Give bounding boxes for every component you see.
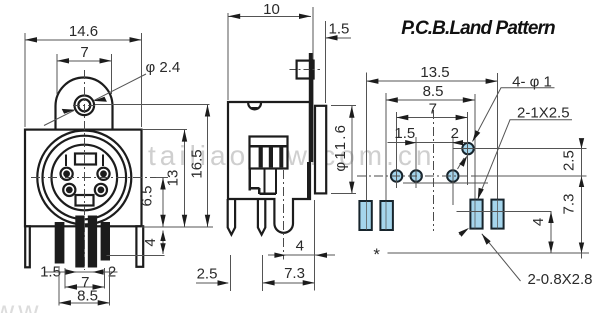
svg-text:1.5: 1.5: [40, 263, 61, 280]
dim 16.5 line: [207, 105, 209, 227]
svg-text:P.C.B.Land Pattern: P.C.B.Land Pattern: [401, 18, 555, 39]
pad R2: [491, 200, 503, 229]
dim 4 bottom reference line: [107, 254, 165, 256]
dim 4 vertical line: [550, 212, 552, 254]
dim 7.3 line: [263, 282, 315, 284]
left mounting leg: [25, 226, 30, 267]
hole B: [411, 170, 422, 181]
dim phi11.6 line: [351, 106, 353, 194]
ear hole outer: [75, 96, 95, 116]
solder pin 3 bar: [88, 216, 97, 268]
lower block step wall: [258, 188, 260, 194]
solder pin 4 bar: [101, 222, 110, 261]
dim phi2.4 leader lower: [44, 110, 74, 125]
svg-text:14.6: 14.6: [69, 23, 98, 40]
pad row reference line: [457, 211, 552, 213]
bottom shared reference line: [142, 226, 214, 228]
svg-text:*: *: [373, 245, 380, 264]
bottom key rect: [76, 195, 94, 206]
vertical ref through hole C: [452, 137, 454, 205]
ear hole inner: [78, 99, 90, 111]
pin 1 ring: [95, 184, 107, 196]
label 4-phi1 leader: [473, 88, 555, 142]
contact block divider 2: [269, 146, 273, 167]
pattern vertical centerline dashed: [432, 110, 434, 231]
dim 10 extension left: [227, 13, 229, 100]
pad R1 corner arrow: [459, 230, 466, 235]
dim phi2.4 leader upper: [95, 74, 147, 100]
svg-text:16.5: 16.5: [189, 149, 206, 178]
svg-text:φ11.6: φ11.6: [332, 123, 349, 172]
tab centerline dash: [290, 69, 321, 71]
svg-text:2.5: 2.5: [561, 150, 578, 171]
ref line through pad R1: [474, 200, 476, 229]
hole A: [391, 170, 402, 181]
svg-text:φ 2.4: φ 2.4: [146, 59, 181, 76]
key shoulder right: [102, 155, 104, 167]
svg-text:2-1X2.5: 2-1X2.5: [517, 104, 570, 121]
lower block step line: [249, 187, 259, 189]
dim 7 top extension lines: [56, 54, 58, 94]
vertical ref through hole D (7 right): [467, 112, 469, 185]
side body outline with shield tab U: [228, 102, 310, 233]
right mounting leg: [136, 226, 143, 266]
vertical ref through pad L2 (8.5 left): [385, 93, 387, 201]
insert circle: [52, 145, 118, 211]
svg-text:13.5: 13.5: [420, 64, 449, 81]
hole row reference solid: [473, 175, 587, 177]
dim 13 top reference line: [142, 129, 188, 131]
svg-text:8.5: 8.5: [423, 83, 444, 100]
front flange: [315, 106, 326, 194]
dim 10 extension right: [312, 7, 314, 59]
hole D lower-left arrow: [458, 158, 465, 169]
svg-text:ww: ww: [0, 295, 42, 313]
dim 1.5/2 line: [388, 142, 468, 144]
svg-text:6.5: 6.5: [138, 186, 155, 207]
pin 3 ring: [97, 168, 109, 180]
front body outline: [25, 130, 142, 227]
bottom reference line: [388, 252, 590, 254]
ref line through pad L1: [365, 201, 367, 230]
hole C: [447, 170, 458, 181]
ground bar: [309, 53, 314, 162]
svg-text:4: 4: [530, 218, 547, 226]
dim 7 line: [396, 117, 467, 119]
svg-text:10: 10: [263, 1, 280, 18]
lower block mid wall: [263, 169, 265, 194]
dim 16.5 top reference line: [95, 104, 210, 106]
svg-text:7: 7: [429, 101, 437, 118]
solder pin 2 bar: [75, 216, 84, 268]
svg-text:8.5: 8.5: [77, 288, 98, 305]
contact block box: [250, 137, 288, 169]
label 2-1X2.5 leader: [478, 120, 572, 200]
dim 1.5/2 bottom line: [44, 271, 118, 273]
lower block right wall: [275, 169, 277, 194]
hole D: [462, 143, 473, 154]
vertical ref through hole B: [415, 137, 417, 188]
ear hole center dash: [73, 104, 96, 106]
svg-text:7.3: 7.3: [284, 265, 305, 282]
lower block bottom line: [259, 193, 276, 195]
vertical ref through pad R1 (8.5 right): [474, 94, 476, 200]
dim 8.5 extension lines: [58, 268, 60, 306]
pad L2: [380, 201, 393, 230]
pad L1: [359, 201, 371, 230]
reference line y183: [403, 182, 488, 184]
dim 4 side line: [268, 254, 335, 256]
side view centerline: [283, 170, 285, 260]
contact block divider 3: [279, 146, 283, 167]
svg-text:2: 2: [108, 263, 116, 280]
vertical ref through pad L1 (13.5 left): [365, 73, 367, 202]
side leg 1: [228, 199, 235, 235]
solder pin 1 bar: [55, 222, 65, 264]
contact block divider 1: [259, 146, 263, 167]
svg-text:2: 2: [451, 125, 459, 142]
dim 6.5 line: [162, 178, 164, 227]
pad R1: [470, 200, 482, 229]
ref line through pad R2: [497, 200, 499, 229]
svg-text:2.5: 2.5: [197, 266, 218, 283]
svg-text:2-0.8X2.8: 2-0.8X2.8: [527, 271, 592, 288]
body right edge inner line: [307, 162, 309, 198]
side leg 2: [258, 199, 265, 235]
dim 4 right line: [162, 231, 164, 254]
dim 7 bottom line: [65, 286, 104, 288]
dim 13.5 line: [366, 80, 497, 82]
dim 13 line: [184, 130, 186, 227]
shield circle outer: [37, 131, 131, 225]
dim 10 line: [228, 15, 311, 17]
dim 1.5 leader: [326, 37, 352, 39]
dim 8.5 line: [59, 302, 110, 304]
dim 1.5 extension: [325, 21, 327, 103]
ref line through pad L2: [385, 201, 387, 230]
mounting ear dome: [56, 78, 113, 130]
svg-text:7: 7: [80, 44, 88, 61]
contact block top line: [250, 145, 288, 147]
shield circle mid: [43, 136, 127, 220]
svg-text:4: 4: [296, 238, 304, 255]
dim 8.5 line: [386, 99, 475, 101]
mounting tab square: [297, 61, 314, 79]
dim 7 bottom extension lines: [64, 268, 66, 289]
top dimple: [248, 103, 261, 109]
dim 2.5 leader: [196, 282, 228, 284]
svg-text:4: 4: [142, 238, 159, 246]
vertical ref through hole A (7 left): [395, 112, 397, 188]
svg-text:1.5: 1.5: [394, 125, 415, 142]
pin 2 ring: [63, 184, 75, 196]
dim phi11.6 ticks: [331, 105, 356, 107]
label 2-0.8X2.8 leader: [482, 234, 521, 281]
key slot rect: [75, 154, 96, 165]
pin 4 ring: [61, 168, 73, 180]
vertical centerline: [83, 70, 85, 270]
dim 6.5 tick: [156, 177, 168, 179]
dim 14.6 extension lines: [24, 33, 26, 127]
vertical ref through pad R2 (13.5 right): [497, 73, 499, 200]
dim 14.6 line: [25, 39, 142, 41]
dim 7.3 extension right: [314, 200, 316, 291]
svg-text:1.5: 1.5: [329, 21, 350, 38]
dim 2.5/7.3 vertical line: [581, 140, 583, 259]
horizontal line through hole D row: [453, 148, 587, 150]
dim 7 top line: [57, 60, 112, 62]
dim 7.3 extension left: [262, 255, 264, 291]
lower block left wall: [249, 169, 251, 191]
key shoulder left: [65, 155, 67, 167]
svg-text:7.3: 7.3: [561, 194, 578, 215]
hole row centerline dashed: [357, 175, 473, 177]
horizontal centerline: [31, 177, 168, 179]
dim 2.5 extension: [229, 255, 231, 291]
